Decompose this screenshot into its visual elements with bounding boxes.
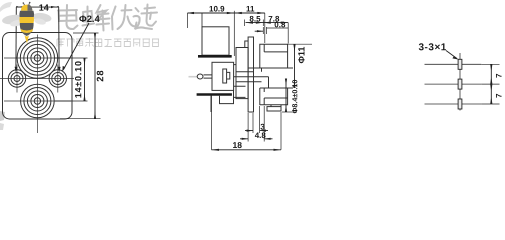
bee abdomen dark with yellow stripe [20,23,34,36]
left view: top jack concentric rings [17,38,58,79]
mid: right barrel upper inner line [264,44,287,52]
svg-text:7: 7 [494,93,503,98]
left view: bottom jack concentric rings [21,84,55,118]
char 电 [58,5,78,29]
mid: step below body right [220,90,234,103]
dim 14 top: line and leaders to mounting holes [15,6,61,73]
mid dims row2: 8.5 and 7.8 [244,20,288,44]
dim 14±0.10 vertical: extension lines and dim line [55,58,88,101]
mid bottom dim 4.8 [240,106,273,142]
right view: pin 1 line [425,63,482,65]
svg-text:4.8: 4.8 [255,131,267,140]
svg-text:7: 7 [494,73,503,78]
char 优 [112,5,137,30]
mid: top-left big rectangle [202,27,229,55]
mid: step connector line [236,47,245,49]
svg-text:18: 18 [232,140,242,150]
svg-text:11: 11 [246,5,255,14]
mid: bold lower barrel line [197,93,232,95]
left view: right mounting hole [49,65,66,93]
svg-text:Φ11: Φ11 [296,47,306,64]
left view: flange plate outline [3,33,73,120]
svg-text:28: 28 [94,69,105,81]
right view: pad 2 [458,79,462,89]
right view: vertical body line [459,53,461,111]
left view: horizontal centerline bottom jack [4,100,71,102]
mid: insulator block [236,48,248,99]
svg-text:Φ2.4: Φ2.4 [79,13,101,24]
watermark big text 电蜂优选 (simplified strokes) [58,5,157,31]
mid: flange plate edge-on [248,37,253,112]
mid: right barrel lower inner line [264,88,287,105]
svg-text:0.8: 0.8 [274,20,286,29]
dim 28 vertical: extension lines and dim line [60,33,101,119]
mid: faint pin ghost [189,76,198,78]
mid: solder tail [267,107,281,111]
mid dims row1: 10.9 and 11 [187,11,265,56]
mid bottom dim 18 [212,96,282,151]
bee body: dark collar band [19,11,34,17]
mid: connector lines body to insulator [234,65,246,98]
svg-text:14: 14 [39,3,49,13]
svg-text:3-3×1: 3-3×1 [418,42,446,53]
right view: pin 2 line [425,83,482,85]
mid bottom dim 3 [245,106,268,133]
watermark corner mark top-left [0,2,12,12]
bee tail [25,36,29,44]
mid: body rectangle [212,62,234,90]
right view: pad 3 [458,99,462,109]
char 蜂 [83,5,110,31]
mid dim Φ11 right [288,44,312,88]
mid dim Φ8.4±0.10 right [282,79,297,113]
mid: inner contact cross [223,69,230,83]
mid: center pin tip oval [197,74,203,79]
watermark small blob bottom-left [0,111,5,121]
left view: horizontal centerline top jack [4,57,71,59]
mid: center slot lines [234,68,293,88]
bee body: head [21,5,32,11]
dim Φ2.4 leader [62,23,89,72]
mid dim 0.8 [255,27,288,34]
svg-text:8.5: 8.5 [249,15,261,24]
watermark subtitle 原厂直采电子连接器商城 (tiny gray glyph blocks) [57,38,159,47]
left view: vertical centerline [36,35,38,134]
right view: pad 1 [458,59,462,69]
svg-text:14±0.10: 14±0.10 [73,60,83,98]
right view dim 7,7 [481,64,499,104]
left view: horizontal centerline through mounting holes [0,78,74,80]
mid: center pin stem [204,75,213,78]
bee wings [1,13,24,25]
left view: left mounting hole [8,65,25,93]
bee body: yellow thorax band [19,17,34,23]
svg-text:10.9: 10.9 [209,5,225,14]
bee antennae [24,3,30,8]
char 选 [134,5,158,30]
svg-text:Φ8.4±0.10: Φ8.4±0.10 [290,80,299,114]
mid: bold upper barrel line [198,55,232,58]
mid: right barrel upper band [260,44,288,68]
right view: pin 3 line [425,103,482,105]
mid: flange top step [245,41,248,48]
mid: right barrel lower band [260,88,288,105]
mid: short vertical below body left [210,96,212,113]
right view: 3-3×1 leader [446,51,458,60]
